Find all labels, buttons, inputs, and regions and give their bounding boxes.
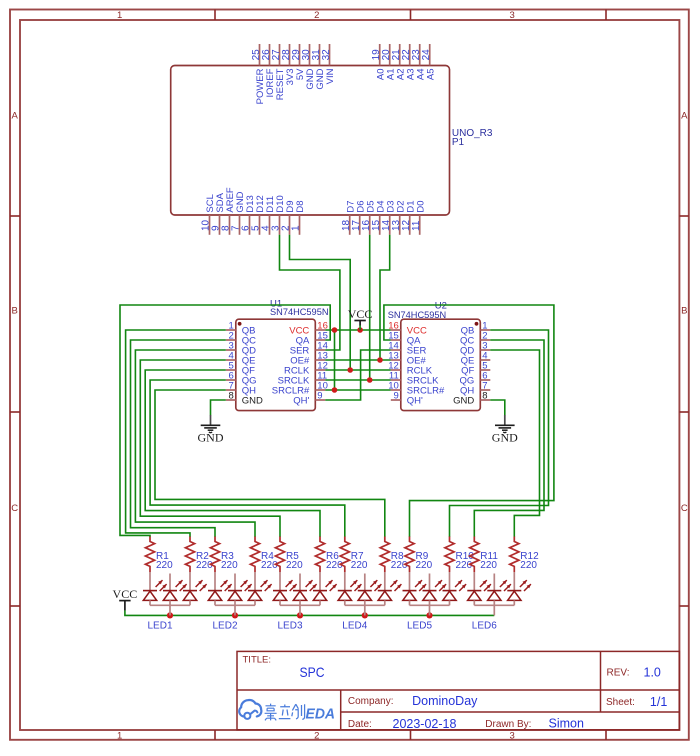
- svg-text:LED6: LED6: [472, 621, 497, 632]
- svg-text:QH': QH': [407, 395, 423, 406]
- VCC symbol (LED rail): [113, 587, 138, 610]
- resistor R12 220: [510, 537, 539, 573]
- svg-text:LED2: LED2: [212, 621, 237, 632]
- wire SRCLR# tie to VCC: [334, 330, 336, 390]
- wire U1 QF to R6: [145, 370, 320, 537]
- svg-text:2023-02-18: 2023-02-18: [393, 717, 457, 731]
- svg-text:220: 220: [261, 560, 278, 571]
- svg-text:2: 2: [314, 731, 319, 742]
- LED3 triple LED common anode: [273, 572, 337, 632]
- wire U1 QC to R3: [131, 340, 226, 537]
- wire U2 QC to R11: [474, 340, 544, 537]
- ground symbol GND (U1): [198, 415, 224, 444]
- svg-text:DominoDay: DominoDay: [412, 694, 478, 708]
- svg-text:B: B: [681, 305, 687, 316]
- JLC EDA logo: [239, 700, 261, 719]
- wire VCC row U1.16 to U2.16: [325, 329, 391, 331]
- svg-text:A: A: [12, 111, 19, 122]
- wire U2 QA to R9: [384, 305, 554, 537]
- svg-text:A: A: [681, 111, 688, 122]
- shift register U2 SN74HC595N: [388, 300, 491, 410]
- svg-text:Sheet:: Sheet:: [606, 697, 635, 708]
- svg-text:11: 11: [411, 220, 422, 231]
- resistor R11 220: [470, 537, 499, 573]
- wire VCC stem to pin16 row: [359, 325, 361, 330]
- wire RCLK row U1.12 to U2.12: [325, 369, 391, 371]
- LED1 triple LED common anode: [143, 572, 207, 632]
- svg-text:C: C: [11, 503, 18, 514]
- svg-text:EDA: EDA: [306, 706, 336, 722]
- svg-text:LED4: LED4: [342, 621, 367, 632]
- svg-text:1.0: 1.0: [644, 665, 661, 679]
- svg-text:GND: GND: [242, 395, 263, 406]
- wire U1 QB to R2: [126, 330, 226, 537]
- resistor R7 220: [340, 537, 368, 573]
- svg-text:9: 9: [317, 391, 322, 402]
- svg-text:8: 8: [229, 391, 234, 402]
- svg-text:220: 220: [351, 560, 368, 571]
- svg-text:GND: GND: [198, 430, 224, 444]
- svg-text:D8: D8: [295, 200, 306, 212]
- wire D3 to OE# net: [380, 235, 390, 360]
- wire U1 GND pin to ground: [211, 400, 226, 415]
- svg-text:3: 3: [510, 10, 515, 21]
- svg-text:Date:: Date:: [348, 719, 372, 730]
- svg-text:9: 9: [394, 391, 399, 402]
- wire SRCLR# row U1.10 to U2.10: [325, 389, 391, 391]
- resistor R9 220: [405, 537, 433, 573]
- VCC symbol (between U1 and U2): [348, 307, 373, 326]
- LED5 triple LED common anode: [403, 572, 467, 632]
- svg-text:220: 220: [520, 560, 537, 571]
- svg-text:2: 2: [314, 10, 319, 21]
- wire OE# row U1.13 to U2.13: [325, 359, 391, 361]
- svg-text:GND: GND: [492, 430, 518, 444]
- wire U1 QH to R8: [155, 390, 385, 537]
- svg-text:VIN: VIN: [325, 68, 336, 84]
- svg-text:1/1: 1/1: [650, 695, 667, 709]
- svg-text:220: 220: [156, 560, 173, 571]
- resistor R2 220: [185, 537, 213, 573]
- svg-text:1: 1: [117, 10, 122, 21]
- svg-text:220: 220: [326, 560, 343, 571]
- Arduino UNO_R3 connector P1: [171, 44, 493, 235]
- wire U1 QA to R1: [120, 305, 330, 537]
- resistor R5 220: [275, 537, 303, 573]
- svg-text:Simon: Simon: [549, 716, 584, 730]
- svg-text:220: 220: [480, 560, 497, 571]
- svg-text:1: 1: [291, 225, 302, 231]
- svg-text:VCC: VCC: [348, 307, 373, 321]
- svg-text:24: 24: [421, 49, 432, 61]
- svg-text:220: 220: [196, 560, 213, 571]
- svg-text:220: 220: [456, 560, 473, 571]
- wire U2 GND pin to ground: [490, 400, 505, 415]
- ground symbol GND (U2): [492, 415, 518, 444]
- wire SRCLK row U1.11 to U2.11: [325, 379, 391, 381]
- svg-text:D0: D0: [415, 200, 426, 212]
- wire U2 QD to R12: [490, 350, 539, 537]
- wire D10 to U1 SER: [280, 235, 340, 350]
- title block: [237, 651, 679, 730]
- svg-text:Drawn By:: Drawn By:: [485, 719, 531, 730]
- svg-text:REV:: REV:: [607, 668, 630, 679]
- resistor R1 220: [145, 537, 173, 573]
- svg-text:220: 220: [286, 560, 303, 571]
- wire U1 QD to R4: [135, 350, 255, 537]
- shift register U1 SN74HC595N: [226, 299, 329, 411]
- LED2 triple LED common anode: [208, 572, 272, 632]
- svg-text:SN74HC595N: SN74HC595N: [270, 307, 329, 318]
- svg-text:B: B: [12, 305, 18, 316]
- wire U2 QB to R10: [450, 330, 549, 537]
- LED4 triple LED common anode: [338, 572, 402, 632]
- wire D9 to RCLK net: [290, 235, 351, 370]
- resistor R10 220: [445, 537, 474, 573]
- svg-text:8: 8: [482, 391, 487, 402]
- svg-text:3: 3: [510, 731, 515, 742]
- resistor R3 220: [210, 537, 238, 573]
- resistor R4 220: [250, 537, 278, 573]
- svg-text:220: 220: [221, 560, 238, 571]
- LED6 triple LED common anode: [467, 572, 531, 632]
- svg-text:LED1: LED1: [147, 621, 172, 632]
- svg-text:C: C: [681, 503, 688, 514]
- svg-text:220: 220: [416, 560, 433, 571]
- svg-text:TITLE:: TITLE:: [243, 655, 272, 666]
- wire VCC rail under LEDs: [125, 610, 494, 615]
- svg-text:VCC: VCC: [113, 587, 138, 601]
- svg-text:1: 1: [117, 731, 122, 742]
- svg-text:LED3: LED3: [277, 621, 302, 632]
- wire D5 to SRCLK net: [369, 235, 371, 380]
- svg-text:32: 32: [321, 49, 332, 61]
- svg-text:A5: A5: [425, 69, 436, 81]
- wire U1 QH' to U2 SER: [325, 350, 391, 400]
- svg-text:SN74HC595N: SN74HC595N: [388, 310, 447, 321]
- svg-text:GND: GND: [453, 395, 474, 406]
- resistor R6 220: [315, 537, 343, 573]
- svg-text:Company:: Company:: [348, 696, 394, 707]
- svg-text:QH': QH': [293, 395, 309, 406]
- svg-text:LED5: LED5: [407, 621, 432, 632]
- wire U1 QE to R5: [140, 360, 280, 537]
- wire U1 QG to R7: [150, 380, 345, 537]
- svg-text:P1: P1: [452, 137, 465, 148]
- svg-text:SPC: SPC: [300, 664, 325, 680]
- junction dots: [167, 327, 433, 618]
- resistor R8 220: [380, 537, 408, 573]
